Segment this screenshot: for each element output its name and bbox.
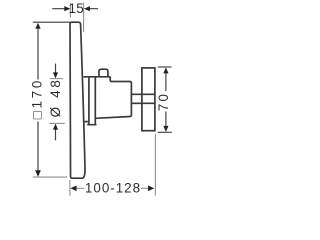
svg-text:100-128: 100-128	[85, 181, 141, 196]
handle bar	[142, 68, 155, 131]
dim 15: left leader with arrow	[52, 8, 64, 10]
dim square170: dimension line lower segment with down arrow	[37, 122, 39, 171]
svg-text:70: 70	[156, 92, 171, 111]
dim 100-128: right arrow	[148, 186, 154, 192]
svg-text:Ø 48: Ø 48	[48, 77, 63, 117]
wire: top connector plate to body	[83, 76, 110, 78]
wire: bottom connector plate to flange	[84, 121, 89, 123]
dim 15: right leader with arrow	[90, 8, 98, 10]
dim dia48: lower stem with up arrow	[55, 129, 57, 140]
stem lines to handle	[131, 94, 155, 103]
dim dia48: upper stem with down arrow	[55, 64, 57, 73]
dim dia48: bottom tick	[49, 122, 65, 124]
dim 15: left extension line	[69, 3, 71, 17]
dim square170: bottom tick	[33, 176, 67, 178]
flange sleeve	[87, 77, 96, 125]
dim 70: bottom tick	[158, 131, 172, 133]
svg-text:15: 15	[68, 1, 84, 16]
dim square170: top tick	[33, 21, 70, 23]
dim dia48: top tick	[50, 78, 63, 80]
valve body	[95, 77, 131, 119]
dim 100-128: right extension line	[154, 134, 156, 196]
stop button bump on body	[99, 69, 108, 77]
escutcheon plate (side profile)	[70, 22, 85, 178]
dim 70: dimension line with arrows	[165, 73, 167, 91]
svg-text:□170: □170	[29, 78, 44, 119]
dim square170: dimension line upper segment with up arrow	[37, 29, 39, 80]
dim 100-128: left arrow	[70, 186, 76, 192]
dim 100-128: left extension line	[69, 180, 71, 196]
dim 15: right extension line	[83, 3, 85, 33]
dim 70: top tick	[158, 66, 172, 68]
